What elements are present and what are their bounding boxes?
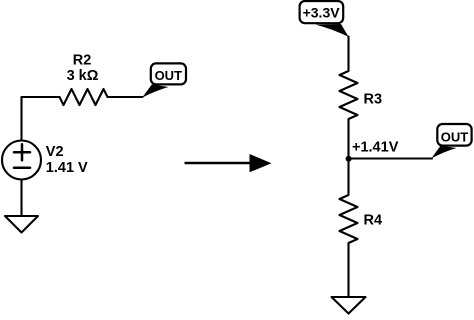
svg-text:1.41 V: 1.41 V [46, 160, 88, 176]
svg-text:V2: V2 [46, 144, 64, 160]
svg-text:R4: R4 [364, 212, 383, 228]
svg-text:3 kΩ: 3 kΩ [67, 68, 99, 84]
svg-text:OUT: OUT [441, 129, 469, 144]
svg-text:R2: R2 [73, 53, 92, 69]
svg-text:OUT: OUT [155, 68, 183, 83]
svg-text:+3.3V: +3.3V [303, 5, 341, 21]
svg-text:+1.41V: +1.41V [352, 140, 399, 156]
svg-text:R3: R3 [364, 92, 383, 108]
